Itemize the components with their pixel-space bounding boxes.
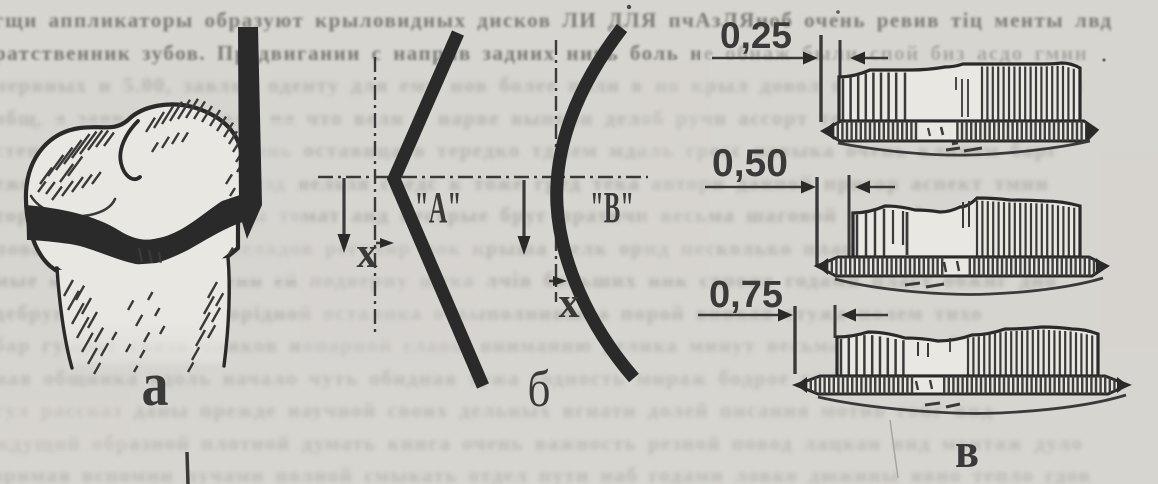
svg-text:"В": "В": [590, 183, 634, 232]
svg-text:0,50: 0,50: [712, 142, 788, 185]
extension line left: [819, 35, 822, 122]
dimension line left part: [712, 57, 804, 59]
center marks under disc: [925, 403, 940, 405]
svg-text:"А": "А": [415, 183, 462, 232]
dimension line right part: [855, 314, 888, 316]
lower face arc: [835, 278, 1103, 294]
centerline vertical B: [555, 40, 557, 302]
extension line left: [793, 306, 796, 374]
offset arrow A: [376, 242, 384, 245]
abrasive hatch lines: [840, 339, 843, 376]
rim tip shading: [817, 258, 828, 275]
blade A (angled disc profile): [394, 33, 483, 386]
crown hatching lower right: [198, 276, 208, 292]
center marks under disc: [946, 148, 960, 150]
tooth crown (molar): [26, 104, 243, 290]
disc body with wavy top: [837, 327, 1098, 376]
crown hatching right cusp: [146, 118, 155, 132]
down arrow B: [522, 180, 525, 238]
blade B (curved disc profile): [557, 28, 634, 378]
separating strip beside tooth: [238, 27, 262, 239]
crown fissure between cusps: [120, 121, 140, 179]
rim teeth: [818, 257, 1103, 276]
lower face arc: [818, 395, 1126, 413]
tooth root left edge: [57, 268, 72, 368]
centerline vertical A: [374, 57, 376, 332]
dark contact band across crown: [26, 193, 246, 265]
abrasive hatch lines: [842, 79, 845, 121]
faint scratch line: [890, 420, 898, 478]
svg-text:0,75: 0,75: [709, 274, 783, 316]
extension line right: [834, 305, 837, 338]
disc body with wavy top: [839, 63, 1080, 121]
neck hatch marks: [139, 248, 142, 262]
left cusp inner ridge: [31, 196, 115, 216]
extension line right: [848, 175, 851, 258]
root hatching: [64, 280, 73, 296]
svg-text:0,25: 0,25: [720, 15, 792, 56]
disc body with wavy top: [853, 198, 1080, 257]
lower figure stub line: [187, 452, 188, 484]
offset arrow B: [549, 280, 556, 283]
centerline horizontal: [318, 176, 648, 178]
abrasive hatch lines: [856, 215, 859, 257]
crown cervical curve: [56, 256, 228, 289]
crown hatching left cusp: [40, 168, 52, 185]
rim teeth: [824, 121, 1095, 141]
center marks under disc: [905, 283, 920, 285]
dimension line left part: [698, 314, 779, 316]
rim tip shading: [796, 377, 807, 393]
svg-text:в: в: [955, 422, 979, 478]
lower face arc: [838, 141, 1090, 155]
extension line right: [839, 40, 842, 113]
rim teeth: [797, 376, 1124, 394]
dimension line right part: [864, 57, 888, 59]
svg-text:x: x: [357, 230, 378, 277]
svg-text:x: x: [559, 280, 580, 327]
tooth root right edge: [224, 257, 229, 366]
svg-text:б: б: [528, 361, 551, 418]
rim tip shading: [823, 122, 834, 140]
extension line left: [815, 177, 818, 267]
svg-text:а: а: [142, 351, 169, 419]
dimension line left part: [705, 186, 802, 188]
dimension line right part: [869, 186, 895, 188]
ink specks: [627, 5, 631, 9]
down arrow A: [342, 178, 345, 236]
